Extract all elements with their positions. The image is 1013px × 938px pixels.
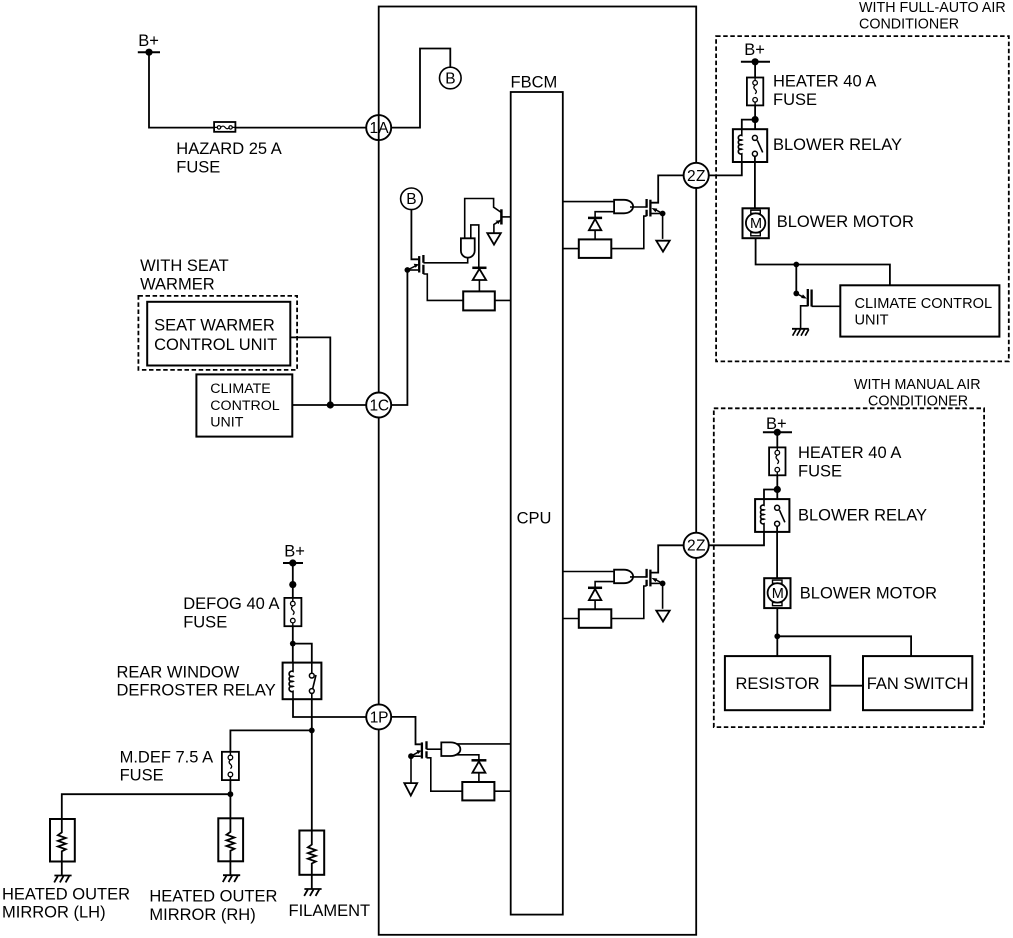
svg-text:WITH MANUAL AIR: WITH MANUAL AIR [854, 377, 981, 393]
junction dot defroster out [309, 728, 315, 734]
resistor R2 left tap to CPU [563, 248, 579, 250]
label HEATED OUTER MIRROR (RH) [149, 888, 277, 924]
wire fuse to relay (manual) [776, 475, 778, 505]
wire B+ to defog fuse [292, 563, 294, 598]
label HEATER 40 A FUSE [773, 73, 876, 109]
gate U1 (driver, pointing down) [461, 238, 475, 257]
svg-text:HEATED OUTER: HEATED OUTER [149, 888, 277, 906]
wire AND in1 / transistor base [465, 199, 502, 239]
resistor R2 [579, 239, 612, 258]
ground (RH mirror) [223, 875, 240, 882]
svg-text:FAN SWITCH: FAN SWITCH [867, 675, 969, 693]
svg-text:BLOWER MOTOR: BLOWER MOTOR [777, 213, 914, 231]
svg-text:BLOWER MOTOR: BLOWER MOTOR [800, 585, 937, 603]
wire relay to blower motor [754, 156, 756, 208]
wire LH mirror to ground [61, 862, 63, 876]
seat warmer dashed box [138, 296, 297, 370]
node B (top) [440, 67, 462, 89]
svg-text:FUSE: FUSE [183, 613, 227, 631]
fuse HEATER 40 A (vertical, manual) [769, 447, 785, 475]
node 2Z (upper) [684, 163, 709, 188]
svg-text:1: 1 [370, 120, 379, 137]
ground arrow (Q2 emitter) [487, 233, 501, 244]
filament (rear defroster element) [299, 831, 324, 875]
svg-text:2: 2 [687, 538, 696, 555]
wire fuse to relay [754, 105, 756, 135]
blower motor (manual) [764, 578, 790, 608]
svg-text:HAZARD 25 A: HAZARD 25 A [176, 140, 281, 158]
svg-text:FILAMENT: FILAMENT [289, 902, 371, 920]
wire Q5 drain to 2Z [650, 545, 690, 572]
junction dot above relay (manual) [774, 486, 781, 493]
wire resistor to fan switch [830, 685, 863, 687]
wire 2Z to relay coil (manual) [709, 532, 764, 545]
dashed box (full-auto air conditioner) [716, 36, 1009, 361]
wire Q5 source to ground arrow [662, 583, 664, 608]
wire U3 in2 hook to diode D3 [452, 755, 479, 761]
wire 2Z to relay coil [709, 162, 742, 175]
svg-text:DEFOG 40 A: DEFOG 40 A [183, 595, 279, 613]
B+ terminal (top left) [138, 32, 160, 56]
resistor R2 right tap to Q4 [611, 216, 646, 249]
wire B+ to heater fuse [754, 62, 756, 78]
svg-text:CONDITIONER: CONDITIONER [859, 17, 959, 33]
junction dot motor out [793, 262, 799, 268]
wire branch to fan switch [777, 636, 911, 656]
fuse DEFOG 40 A (vertical) [284, 598, 301, 626]
svg-text:B: B [445, 70, 455, 87]
junction dot above relay [290, 641, 296, 647]
gate U3 (driver, pointing left) [441, 742, 460, 756]
svg-text:CONDITIONER: CONDITIONER [868, 393, 968, 409]
svg-text:MIRROR (LH): MIRROR (LH) [2, 904, 106, 922]
wire 1P to MOSFET Q3 [391, 717, 421, 744]
wire U2 output to Q4 gate [630, 206, 647, 208]
wire branch to relay coil (manual) [764, 490, 777, 500]
MOSFET Q1 (high-side driver) [407, 255, 423, 274]
dashed box (manual air conditioner) [714, 408, 984, 727]
diode D2 (zener) [588, 218, 602, 240]
svg-text:M: M [772, 586, 784, 602]
svg-text:HEATED OUTER: HEATED OUTER [2, 885, 130, 903]
svg-text:P: P [378, 709, 388, 726]
svg-text:Z: Z [696, 168, 705, 185]
junction dot above relay [752, 116, 759, 123]
junction dot (seat warmer / ccu) [327, 401, 334, 408]
label DEFOG 40 A FUSE [183, 595, 279, 631]
svg-text:CPU: CPU [517, 510, 552, 528]
MOSFET Q6 (low-side) [796, 289, 840, 329]
svg-text:M.DEF 7.5 A: M.DEF 7.5 A [120, 748, 214, 766]
diode D4 (zener) [588, 588, 602, 610]
wire Q4 drain to 2Z [650, 175, 690, 202]
svg-text:BLOWER RELAY: BLOWER RELAY [773, 136, 902, 154]
fuse HEATER 40 A (vertical) [747, 78, 763, 106]
wire B to MOSFET drain [411, 210, 418, 260]
svg-text:1: 1 [370, 709, 379, 726]
wire U4 in2 to diode D4 [595, 582, 614, 588]
junction dot below B+ [289, 581, 296, 588]
ground arrow (Q5) [656, 611, 669, 622]
svg-text:FUSE: FUSE [773, 91, 817, 109]
svg-text:BLOWER RELAY: BLOWER RELAY [798, 507, 927, 525]
wire climate control to 1C [292, 404, 366, 406]
wire fuse to RH mirror [229, 780, 231, 818]
wire fuse to relay [292, 626, 294, 662]
resistor box RESISTOR [725, 656, 830, 710]
junction dot Q6 drain [793, 291, 799, 297]
wire Q1 lower tap to resistor R1 [423, 274, 463, 300]
resistor R1 to CPU [495, 299, 511, 301]
node B (left driver) [401, 188, 423, 210]
CPU box [511, 92, 563, 915]
node 1P [366, 704, 391, 729]
label M.DEF 7.5 A FUSE [120, 748, 214, 784]
climate control unit box (left) [196, 374, 292, 436]
wire filament to ground [311, 875, 313, 889]
climate control unit box (full-auto) [840, 285, 999, 336]
svg-text:HEATER 40 A: HEATER 40 A [773, 73, 876, 91]
wire relay to blower motor (manual) [776, 526, 778, 578]
svg-text:FUSE: FUSE [798, 463, 842, 481]
ground (Q6 chassis) [792, 329, 809, 336]
svg-text:2: 2 [687, 168, 696, 185]
relay (rear window defroster) [283, 663, 322, 700]
wire Q3 lower tap to resistor R3 [427, 758, 463, 791]
svg-text:WARMER: WARMER [140, 276, 215, 294]
wire relay coil to 1P [293, 699, 367, 717]
wire branch to relay coil [742, 120, 755, 130]
svg-text:RESISTOR: RESISTOR [735, 675, 819, 693]
svg-text:FUSE: FUSE [120, 767, 164, 785]
label WITH FULL-AUTO AIR CONDITIONER [859, 0, 1006, 32]
wire U2 in2 to diode D2 [595, 212, 614, 218]
wire Q3 gate to gate U3 [427, 748, 442, 750]
junction dot Q5 source [660, 581, 666, 587]
svg-text:CLIMATE: CLIMATE [210, 381, 270, 397]
label HEATER 40 A FUSE (manual) [798, 444, 901, 480]
junction dot motor out (manual) [774, 633, 780, 639]
resistor R1 [463, 291, 495, 310]
relay BLOWER (manual) [755, 499, 789, 532]
svg-text:B+: B+ [284, 543, 305, 561]
svg-text:CLIMATE CONTROL: CLIMATE CONTROL [855, 296, 993, 312]
svg-text:SEAT WARMER: SEAT WARMER [154, 316, 275, 334]
wire Q4 source to ground arrow [662, 214, 664, 239]
svg-text:FBCM: FBCM [511, 73, 558, 91]
fan switch box FAN SWITCH [863, 656, 972, 710]
svg-text:DEFROSTER RELAY: DEFROSTER RELAY [117, 682, 276, 700]
svg-text:FUSE: FUSE [176, 159, 220, 177]
wire Q3 source to ground arrow [410, 756, 412, 783]
resistor R3 [462, 782, 494, 800]
FBCM module box [379, 7, 697, 935]
wire motor to resistor [776, 608, 778, 656]
wire U4 output to Q5 gate [630, 576, 647, 578]
ground (filament) [304, 889, 321, 896]
wire branch to M.DEF fuse [230, 730, 311, 751]
svg-text:HEATER 40 A: HEATER 40 A [798, 444, 901, 462]
resistor R4 left tap to CPU [563, 618, 579, 620]
heated outer mirror RH (heater element) [218, 818, 243, 861]
wire 1C to MOSFET source dot [391, 270, 407, 405]
diode D1 (zener) [472, 268, 486, 292]
node 2Z (lower) [684, 533, 709, 558]
wire U2 in1 to CPU [563, 201, 614, 203]
transistor Q2 (PNP) [494, 209, 511, 233]
svg-text:B+: B+ [744, 41, 765, 59]
wire U3 in1 to CPU [452, 743, 511, 745]
ground arrow (Q3) [404, 783, 417, 795]
svg-text:1: 1 [370, 397, 379, 414]
MOSFET Q4 (high-side driver) [647, 199, 663, 217]
gate U2 (driver, pointing right) [614, 200, 633, 214]
svg-text:CONTROL UNIT: CONTROL UNIT [154, 336, 277, 354]
gate U4 (driver, pointing right) [614, 570, 633, 584]
label WITH SEAT WARMER [140, 257, 229, 293]
junction dot below M.DEF fuse [228, 791, 234, 797]
wire motor to climate control unit [756, 238, 890, 285]
ground arrow (Q4) [656, 241, 669, 252]
svg-text:WITH FULL-AUTO AIR: WITH FULL-AUTO AIR [859, 0, 1006, 16]
B+ terminal (manual) [763, 415, 792, 436]
wire relay switch down to filament [311, 699, 313, 830]
blower motor (full-auto) [743, 208, 769, 238]
MOSFET Q5 (high-side driver) [647, 569, 663, 587]
label REAR WINDOW DEFROSTER RELAY [117, 663, 276, 699]
heated outer mirror LH (heater element) [50, 819, 75, 862]
svg-text:MIRROR (RH): MIRROR (RH) [149, 906, 255, 924]
wire RH mirror to ground [229, 861, 231, 875]
wire seat warmer to junction [290, 337, 330, 405]
wire U4 in1 to CPU [563, 571, 614, 573]
fuse HAZARD 25 A (horizontal) [214, 122, 235, 132]
junction dot Q4 source [660, 211, 666, 217]
junction dot Q1 source [405, 267, 411, 273]
wire 1A to B circle [391, 49, 450, 128]
resistor R4 [579, 609, 612, 628]
wire to MOSFET Q6 [795, 265, 797, 294]
svg-text:B: B [406, 191, 416, 208]
svg-text:REAR WINDOW: REAR WINDOW [117, 663, 240, 681]
svg-text:C: C [378, 397, 389, 414]
label HAZARD 25 A FUSE [176, 140, 281, 176]
wire B+ to heater fuse [776, 432, 778, 447]
svg-text:CONTROL: CONTROL [210, 398, 279, 414]
label WITH MANUAL AIR CONDITIONER [854, 377, 981, 410]
svg-text:UNIT: UNIT [210, 415, 243, 431]
wire AND in2 hook to diode D1 [471, 225, 479, 268]
resistor R3 to CPU [494, 790, 510, 792]
resistor R4 right tap to Q5 [611, 586, 646, 619]
fuse M.DEF 7.5 A (vertical) [222, 752, 239, 780]
wire branch to relay switch [293, 644, 312, 663]
wire branch to LH mirror [62, 794, 231, 819]
wire Q1 gate to AND output [423, 256, 467, 263]
node 1C [366, 393, 391, 418]
svg-text:Z: Z [696, 538, 705, 555]
B+ terminal (full-auto) [741, 41, 770, 66]
svg-text:B+: B+ [138, 32, 159, 50]
seat warmer control unit box [147, 302, 290, 366]
B+ terminal (defog) [283, 543, 305, 567]
svg-text:A: A [378, 120, 389, 137]
svg-text:UNIT: UNIT [855, 312, 889, 328]
junction dot Q3 source [408, 753, 414, 759]
svg-text:M: M [750, 216, 762, 232]
svg-text:WITH SEAT: WITH SEAT [140, 257, 229, 275]
node 1A [366, 115, 391, 140]
ground (LH mirror) [54, 876, 71, 883]
diode D3 (zener) [472, 760, 487, 782]
MOSFET Q3 (low-side driver) [411, 741, 427, 758]
wire B+ to 1A [149, 52, 367, 127]
label HEATED OUTER MIRROR (LH) [2, 885, 130, 921]
relay BLOWER (full-auto) [733, 129, 767, 162]
